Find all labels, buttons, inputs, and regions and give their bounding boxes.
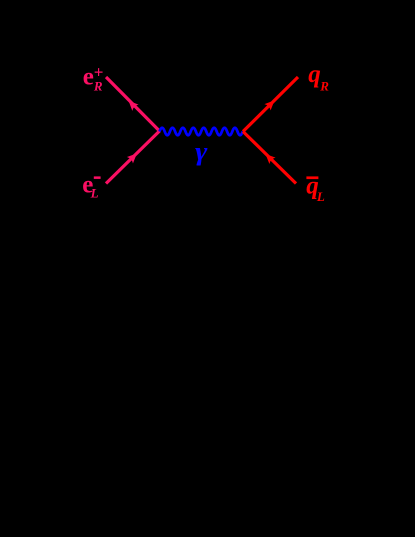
svg-text:L: L bbox=[316, 189, 325, 204]
antiquark line qbar (outgoing, lower right) bbox=[243, 132, 296, 184]
svg-text:R: R bbox=[93, 78, 103, 93]
label gamma (photon) bbox=[195, 138, 208, 167]
photon propagator (wavy line) bbox=[160, 128, 243, 136]
arrow on qbar line (pointing up-left, toward vertex) bbox=[262, 151, 275, 164]
label e-_L (electron) bbox=[82, 172, 100, 201]
svg-text:L: L bbox=[90, 186, 99, 201]
label qbar_L (antiquark) bbox=[306, 173, 325, 204]
arrow on q line (pointing up-right, away from vertex) bbox=[264, 97, 277, 110]
svg-text:e: e bbox=[83, 63, 94, 90]
arrow on e- line (pointing up-right, toward vertex) bbox=[127, 150, 140, 163]
label e+_R (positron) bbox=[83, 62, 104, 93]
arrow on e+ line (pointing up-left, away from vertex) bbox=[125, 98, 138, 111]
label q_R (quark) bbox=[308, 61, 329, 94]
svg-text:q: q bbox=[308, 61, 321, 88]
svg-text:γ: γ bbox=[195, 138, 208, 167]
svg-text:R: R bbox=[319, 79, 329, 94]
electron line e- (incoming, lower left) bbox=[106, 131, 160, 184]
quark line q (outgoing, upper right) bbox=[243, 77, 298, 132]
positron line e+ (incoming, upper left) bbox=[106, 77, 160, 131]
